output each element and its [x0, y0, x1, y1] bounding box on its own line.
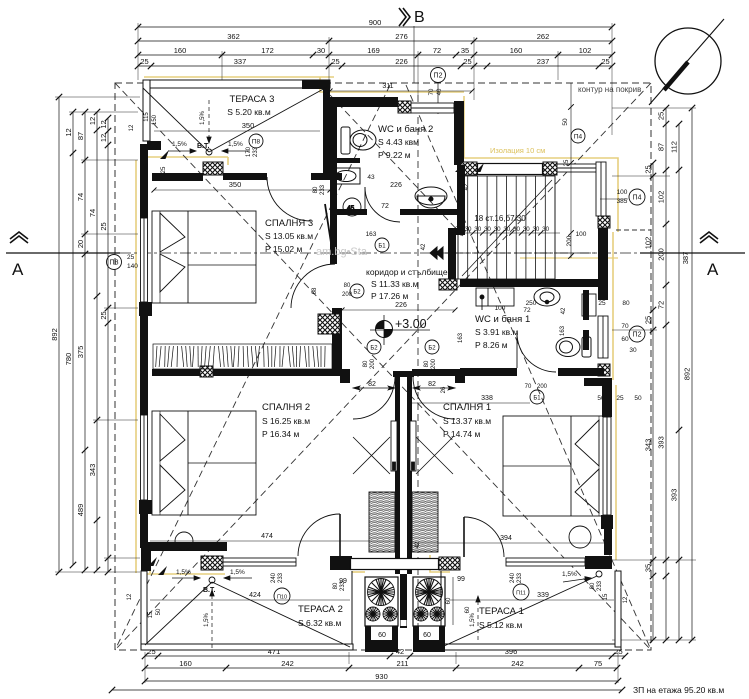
svg-text:112: 112: [670, 141, 679, 153]
wall left exterior s3: [140, 514, 148, 548]
closet strip bedroom2 side: [369, 492, 395, 552]
svg-text:87: 87: [76, 132, 85, 140]
svg-text:242: 242: [281, 659, 294, 668]
axis bubble П8 left: [107, 254, 139, 270]
wall right exterior s3: [604, 529, 612, 555]
svg-text:240: 240: [510, 572, 516, 583]
svg-text:45: 45: [347, 205, 355, 212]
svg-text:40: 40: [437, 88, 443, 95]
terrace1 slope lines: [444, 571, 602, 646]
svg-text:Б2: Б2: [428, 345, 436, 351]
axis bubble П2 right: [621, 323, 645, 354]
svg-text:Б2: Б2: [353, 289, 361, 295]
svg-text:262: 262: [537, 32, 550, 41]
svg-text:S 5.12 кв.м: S 5.12 кв.м: [479, 620, 523, 630]
dimension chain left row3: [76, 109, 88, 573]
window bedroom1 (right wall): [603, 417, 611, 515]
crosshatch sill terrace1: [439, 557, 460, 570]
svg-text:102: 102: [644, 237, 653, 250]
level marker +3.00: [370, 315, 430, 345]
bed bedroom1: [503, 416, 607, 516]
svg-text:250: 250: [526, 300, 537, 307]
svg-text:60: 60: [465, 606, 471, 613]
svg-text:242: 242: [511, 659, 524, 668]
svg-text:82: 82: [368, 381, 376, 388]
wall left pier mid: [139, 302, 152, 316]
svg-text:72: 72: [657, 301, 666, 309]
axis bubble П10 terrace2: [274, 588, 290, 604]
dim 424 terrace2: [150, 592, 350, 600]
svg-text:П10: П10: [277, 594, 287, 600]
svg-text:233: 233: [278, 572, 284, 583]
wall bedroom3 top w mid: [223, 173, 267, 180]
svg-text:25: 25: [644, 165, 653, 173]
svg-text:1,5%: 1,5%: [562, 571, 577, 578]
wall wc1 niche wall a: [583, 290, 589, 320]
svg-text:393: 393: [670, 489, 679, 502]
roof contour stub right: [616, 229, 651, 231]
dim 311 top: [328, 83, 475, 94]
svg-text:311: 311: [382, 83, 393, 90]
svg-text:П2: П2: [434, 72, 443, 79]
svg-text:30: 30: [474, 226, 481, 233]
crosshatch pier stair top right: [543, 162, 557, 175]
top extension lines: [138, 23, 612, 135]
svg-text:160: 160: [174, 46, 187, 55]
svg-text:233: 233: [517, 572, 523, 583]
svg-text:892: 892: [50, 328, 59, 341]
terrace2 parapet: [141, 571, 353, 650]
dimension chain right row2: [657, 105, 670, 643]
svg-text:42: 42: [464, 183, 470, 190]
svg-text:30: 30: [542, 226, 549, 233]
door wc2: [365, 187, 400, 222]
door terrace1 arc: [470, 566, 514, 610]
svg-text:П2: П2: [633, 331, 642, 338]
svg-text:25: 25: [140, 57, 148, 66]
dim line x571: [568, 83, 574, 259]
svg-text:163: 163: [366, 231, 377, 238]
dimension chain right total 892: [683, 105, 696, 643]
svg-text:80: 80: [590, 582, 596, 589]
svg-text:S 5.20 кв.м: S 5.20 кв.м: [227, 107, 271, 117]
door leaf bedroom1 (open): [410, 421, 453, 474]
wall terrace3 top wall corner block: [302, 80, 330, 89]
svg-text:am.bg•Sta: am.bg•Sta: [316, 246, 368, 258]
section marker A left: [10, 232, 28, 243]
svg-text:12: 12: [64, 128, 73, 136]
bubble B2 door left: [367, 340, 381, 354]
svg-text:+3.00: +3.00: [395, 317, 427, 331]
axis bubble П4 upper: [571, 129, 585, 143]
dimension chain left total 892: [50, 94, 62, 575]
roof hip diagonals (dashed): [115, 83, 651, 650]
roof hip short (wc2): [330, 95, 463, 236]
svg-text:1,5%: 1,5%: [204, 613, 210, 627]
svg-text:240: 240: [271, 572, 277, 583]
svg-text:S 4.43 квм: S 4.43 квм: [378, 137, 419, 147]
svg-text:P 9.22 м: P 9.22 м: [378, 150, 411, 160]
svg-text:42: 42: [421, 243, 427, 250]
svg-text:ЗП на етажа 95.20 кв.м: ЗП на етажа 95.20 кв.м: [633, 685, 724, 695]
wall left exterior upper: [140, 144, 148, 173]
svg-text:25: 25: [331, 57, 339, 66]
svg-text:80: 80: [622, 300, 630, 307]
wall corridor right wall: [448, 235, 456, 280]
svg-text:70: 70: [429, 88, 435, 95]
closet strip bedroom1 side: [412, 492, 438, 552]
svg-text:ТЕРАСА 1: ТЕРАСА 1: [479, 606, 524, 617]
section marker A right: [700, 232, 718, 243]
svg-text:233: 233: [320, 184, 326, 195]
svg-text:12: 12: [129, 124, 135, 131]
window stair top right: [557, 164, 598, 172]
svg-text:343: 343: [644, 439, 653, 452]
crosshatch pier wc1: [439, 279, 457, 290]
svg-text:87: 87: [657, 143, 666, 151]
svg-text:50: 50: [562, 118, 569, 126]
svg-text:200: 200: [431, 358, 437, 369]
svg-text:1,5%: 1,5%: [172, 141, 187, 148]
svg-text:375: 375: [76, 346, 85, 359]
planter dim line: [452, 577, 454, 625]
svg-text:ТЕРАСА 3: ТЕРАСА 3: [230, 94, 275, 105]
svg-text:387: 387: [681, 252, 690, 265]
wall wc1 niche wall b: [583, 330, 589, 350]
svg-text:WC и баня 2: WC и баня 2: [378, 124, 433, 135]
wall bedroom3 top w right: [311, 173, 342, 180]
axis bubble П8 terrace3: [249, 134, 263, 148]
svg-text:15: 15: [148, 611, 154, 618]
entry steps right (solid): [413, 640, 445, 652]
crosshatch sill terrace2: [201, 556, 223, 570]
wall wc2 partition: [337, 158, 360, 163]
wall terrace2 corner: [141, 551, 151, 571]
svg-text:72: 72: [523, 307, 531, 314]
svg-text:12: 12: [99, 120, 108, 128]
svg-text:P 16.34 м: P 16.34 м: [262, 429, 300, 439]
svg-text:200: 200: [330, 144, 336, 155]
svg-text:169: 169: [367, 46, 380, 55]
svg-text:60: 60: [378, 632, 386, 639]
svg-text:коридор и стълбище: коридор и стълбище: [366, 267, 448, 277]
dim 226 wc2: [334, 182, 460, 190]
svg-text:30: 30: [494, 226, 501, 233]
bed bedroom3: [152, 211, 256, 303]
north arrow: [649, 19, 724, 105]
dimension chain top row3: [135, 46, 615, 58]
svg-text:900: 900: [369, 18, 382, 27]
side table circle bedroom2: [175, 532, 193, 550]
svg-text:В.Т.: В.Т.: [203, 587, 215, 594]
dimension chain right row1: [644, 160, 657, 643]
svg-text:В.Т.: В.Т.: [197, 143, 209, 150]
svg-text:П8: П8: [110, 259, 119, 266]
svg-text:П4: П4: [633, 194, 642, 201]
door bedroom2-terrace2: [298, 514, 340, 556]
roof ridge line (dashed vertical): [417, 95, 419, 648]
svg-text:233: 233: [340, 580, 346, 591]
svg-text:25: 25: [463, 57, 471, 66]
svg-text:60: 60: [621, 336, 629, 343]
dimension chain bottom total 930: [142, 672, 621, 684]
dim 350 terrace3: [154, 121, 320, 131]
door bedroom3 (corridor): [291, 204, 335, 308]
wall mid wall jog R: [455, 369, 465, 383]
svg-text:393: 393: [657, 436, 666, 449]
dimension chain left 780: [64, 109, 76, 568]
svg-text:50: 50: [156, 608, 162, 615]
dim 394 bedroom1: [412, 535, 605, 543]
svg-text:A: A: [12, 260, 24, 279]
door wc1: [517, 333, 556, 372]
svg-text:350: 350: [242, 121, 255, 130]
svg-text:80: 80: [344, 283, 351, 289]
wall stair top (outlined): [478, 164, 543, 175]
dimension chain top total 900: [135, 18, 615, 30]
svg-text:780: 780: [64, 353, 73, 366]
svg-text:160: 160: [179, 659, 192, 668]
wall terrace1 corner post: [585, 556, 612, 569]
wall terrace3/wc2 divider: [323, 80, 330, 177]
svg-text:99: 99: [457, 576, 465, 583]
window bedroom1-terrace1: [506, 558, 585, 566]
planter legs: [365, 626, 445, 642]
svg-text:226: 226: [390, 182, 402, 189]
svg-text:СПАЛНЯ 2: СПАЛНЯ 2: [262, 402, 310, 413]
svg-text:892: 892: [683, 368, 692, 381]
planter right: [413, 577, 445, 626]
center wall top cap: [393, 371, 414, 377]
svg-text:60: 60: [423, 632, 431, 639]
svg-text:35: 35: [644, 564, 653, 572]
svg-text:12: 12: [127, 593, 133, 600]
dimension chain top row4: [135, 57, 615, 69]
svg-text:S 13.37 кв.м: S 13.37 кв.м: [443, 416, 491, 426]
svg-text:18 ст.16,б7/30: 18 ст.16,б7/30: [474, 214, 526, 223]
svg-text:70: 70: [525, 384, 532, 390]
sink wc1: [534, 288, 560, 306]
svg-text:Б2: Б2: [370, 345, 378, 351]
door bedroom2 (leaf arc): [353, 377, 395, 419]
door leaf bedroom2 (open): [353, 421, 397, 474]
wardrobe bedroom2 (hatched): [153, 344, 332, 369]
wall right exterior s1: [598, 228, 608, 300]
wall wc2 top wall: [330, 97, 398, 107]
wall wc1 top wall: [460, 279, 600, 287]
svg-text:П4: П4: [574, 133, 583, 140]
terrace2 slope lines: [145, 577, 350, 647]
svg-text:Б1: Б1: [533, 395, 541, 401]
axis B line: [413, 26, 415, 83]
window wc2 top wall: [411, 103, 454, 113]
dim 350 bedroom3: [152, 180, 333, 193]
door bedroom1 (leaf arc): [413, 377, 455, 419]
insulation contour (yellow): [136, 77, 618, 574]
svg-text:ТЕРАСА 2: ТЕРАСА 2: [298, 604, 343, 615]
svg-text:25: 25: [99, 222, 108, 230]
wall right exterior s2: [602, 386, 612, 417]
wall mid wall left part: [213, 369, 340, 376]
wall porch post left: [330, 556, 352, 570]
window wc1 (right wall): [598, 316, 608, 358]
dimension chain bottom row2: [142, 659, 620, 671]
door sill crosshatch terrace3: [203, 162, 223, 175]
wall left exterior s1: [140, 173, 148, 218]
svg-text:15: 15: [603, 593, 609, 600]
svg-text:30: 30: [629, 347, 637, 354]
svg-text:170: 170: [246, 146, 252, 157]
svg-text:S 3.91 кв.м: S 3.91 кв.м: [475, 327, 519, 337]
svg-text:25: 25: [99, 311, 108, 319]
svg-text:12: 12: [99, 134, 108, 142]
svg-text:35: 35: [461, 46, 469, 55]
planter left: [365, 577, 398, 626]
svg-text:30: 30: [317, 46, 325, 55]
dim 226 corridor: [340, 302, 458, 313]
terrace3 slope arrows: [168, 100, 250, 153]
svg-text:200: 200: [342, 292, 353, 298]
door bedroom3 (top wall, from terrace): [267, 177, 311, 221]
svg-text:338: 338: [481, 395, 493, 402]
stairs: [458, 176, 555, 279]
svg-text:S 16.25 кв.м: S 16.25 кв.м: [262, 416, 310, 426]
svg-text:30: 30: [484, 226, 491, 233]
dimension chain right row3: [670, 121, 683, 643]
wall stair upper left wall: [454, 101, 464, 165]
svg-text:930: 930: [375, 672, 388, 681]
wall wc2 bottom w right: [400, 209, 464, 215]
solid dim wedges stair pier: [455, 163, 484, 172]
svg-text:П8: П8: [252, 138, 261, 145]
svg-text:60: 60: [446, 597, 452, 604]
axis bubble П11 terrace1: [513, 584, 529, 600]
svg-text:1,5%: 1,5%: [230, 569, 245, 576]
lamp circle bedroom1: [522, 442, 524, 444]
svg-text:P 8.26 м: P 8.26 м: [475, 340, 508, 350]
svg-text:75: 75: [594, 659, 602, 668]
svg-text:12: 12: [623, 596, 629, 603]
svg-text:226: 226: [395, 57, 408, 66]
svg-text:1,5%: 1,5%: [228, 141, 243, 148]
svg-text:276: 276: [395, 32, 408, 41]
svg-text:362: 362: [227, 32, 240, 41]
svg-text:80: 80: [424, 360, 430, 367]
svg-text:1,5%: 1,5%: [200, 111, 206, 125]
wall bedroom3 top w left: [152, 173, 203, 181]
bottom border line: [109, 687, 625, 693]
svg-text:343: 343: [88, 464, 97, 477]
svg-text:25: 25: [161, 166, 167, 173]
crosshatch pier right stair: [598, 216, 610, 228]
wall corridor left wall: [332, 308, 342, 375]
dim 82 lines with arrows: [353, 386, 455, 390]
svg-text:100: 100: [617, 189, 628, 196]
wall wc2 bottom w left: [330, 209, 367, 215]
svg-text:102: 102: [579, 46, 592, 55]
svg-text:25: 25: [657, 112, 666, 120]
svg-text:80: 80: [363, 360, 369, 367]
niche wc1 right: [582, 294, 596, 316]
wall left pier low: [139, 500, 152, 514]
window bedroom2 (left wall): [141, 415, 148, 500]
svg-text:30: 30: [532, 226, 539, 233]
svg-text:56: 56: [597, 395, 605, 402]
center entry pier: [400, 574, 407, 628]
svg-text:226: 226: [395, 302, 407, 309]
stair center dashline: [430, 252, 600, 254]
svg-text:П11: П11: [516, 590, 526, 596]
svg-text:237: 237: [537, 57, 550, 66]
axis marker B top: [399, 8, 410, 26]
svg-text:30: 30: [455, 226, 462, 233]
solid dim wedges bedroom2 corner: [148, 557, 167, 575]
svg-text:100: 100: [495, 305, 506, 312]
svg-text:30: 30: [503, 226, 510, 233]
svg-text:25: 25: [644, 316, 653, 324]
wall bedroom1 top-right corner wall: [584, 378, 612, 386]
wall terrace3 left step: [147, 141, 161, 150]
svg-text:115: 115: [144, 112, 150, 122]
svg-text:74: 74: [76, 193, 85, 201]
svg-text:140: 140: [127, 263, 138, 270]
bubble B1 wc1: [525, 384, 548, 404]
wall bedroom2 bottom wall: [141, 542, 227, 551]
svg-text:42: 42: [561, 307, 567, 314]
dim 338 bedroom1: [412, 395, 642, 403]
dimension chain top row2: [135, 32, 615, 44]
axis bubble П4 right: [600, 189, 645, 205]
svg-text:424: 424: [249, 592, 261, 599]
wall wc1 bottom w left: [460, 368, 517, 376]
svg-text:1,5%: 1,5%: [176, 569, 191, 576]
left extension lines: [55, 97, 140, 572]
svg-text:80: 80: [313, 186, 319, 193]
entry steps left (solid): [365, 640, 398, 652]
svg-text:163: 163: [458, 332, 464, 343]
dimension chain bottom row1: [142, 647, 628, 659]
svg-text:Б1: Б1: [378, 243, 386, 249]
section line A-A: [6, 252, 745, 254]
crosshatch pier corridor: [318, 314, 340, 334]
svg-text:Изолация 10 см: Изолация 10 см: [490, 146, 545, 155]
roof contour (dashed rectangle): [115, 83, 651, 650]
svg-text:82: 82: [428, 381, 436, 388]
door terrace2 (bedroom2 south): [330, 566, 352, 588]
dim 339 terrace1: [450, 592, 614, 600]
stair up arrow: [430, 247, 443, 259]
svg-text:S 13.05 кв.м: S 13.05 кв.м: [265, 231, 313, 241]
crosshatch pier stair top left: [461, 162, 477, 175]
stair tread dims: [449, 226, 560, 236]
shower drain wc2: [343, 198, 361, 216]
svg-text:474: 474: [261, 533, 273, 540]
wall landing jog: [448, 228, 458, 235]
svg-text:233: 233: [597, 580, 603, 591]
wall wc1 bottom w right: [558, 368, 604, 376]
svg-text:P 14.74 м: P 14.74 м: [443, 429, 481, 439]
svg-text:172: 172: [261, 46, 274, 55]
axis bubble П2: [429, 68, 446, 115]
crosshatch pier right wc1: [598, 364, 610, 376]
bed bedroom2: [152, 411, 256, 515]
svg-text:WC и баня 1: WC и баня 1: [475, 314, 530, 325]
bubble B2 corridor top: [342, 283, 364, 298]
terrace 3 parapet top: [143, 80, 330, 141]
svg-text:72: 72: [433, 46, 441, 55]
wall mid wall right part: [412, 369, 460, 376]
wall right pier br1b: [601, 515, 613, 529]
